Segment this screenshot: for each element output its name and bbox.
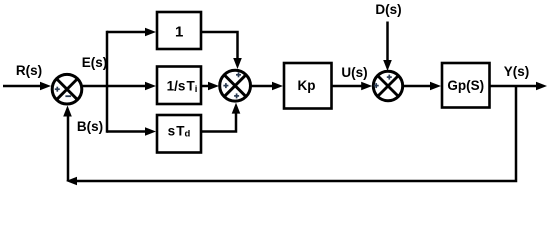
svg-text:Y(s): Y(s) (504, 64, 530, 79)
block Kp (controller gain) (284, 63, 332, 109)
S2 plus left (223, 83, 228, 88)
block 1 (proportional path) (157, 12, 201, 49)
wire S2 to Kp (250, 85, 276, 88)
svg-text:1: 1 (175, 24, 183, 41)
wire sTd output to S2 bottom (201, 111, 236, 132)
block sTd (derivative path) (157, 115, 201, 153)
block Gp(S) (plant) (442, 63, 490, 108)
arrowhead into Kp (272, 82, 283, 91)
svg-text:R(s): R(s) (16, 63, 42, 78)
arrowhead into S2 left (208, 82, 219, 91)
S1 minus sign (65, 95, 71, 97)
svg-text:E(s): E(s) (82, 55, 108, 70)
svg-text:B(s): B(s) (77, 119, 103, 134)
arrowhead into block 1/sTi (145, 82, 156, 91)
S2 plus bottom (234, 93, 239, 98)
arrowhead into Gp (430, 82, 441, 91)
wire R(s) input (3, 85, 44, 88)
wire D(s) disturbance down into S3 (386, 22, 389, 64)
arrowhead output Y(s) (536, 82, 547, 91)
svg-text:Gp(S): Gp(S) (447, 78, 484, 93)
summing junction S3 (373, 71, 402, 100)
svg-text:U(s): U(s) (341, 65, 367, 80)
arrowhead into S3 left (361, 82, 372, 91)
wire S3 to Gp (403, 85, 434, 88)
S3 plus left (374, 83, 379, 88)
wire E(s) from S1 to integral block (82, 85, 149, 88)
svg-text:Kp: Kp (298, 78, 316, 93)
S1 plus sign (55, 87, 60, 92)
arrowhead feedback into S1 bottom (63, 106, 72, 117)
S2 plus top (236, 72, 241, 77)
wire Y(s) output (489, 85, 540, 88)
wire U(s) from Kp to S3 (332, 85, 365, 88)
svg-text:1/s Ti: 1/s Ti (167, 79, 198, 96)
wire feedback: down from output node, across bottom (76, 86, 516, 181)
wire branch to block sTd (107, 130, 149, 133)
S3 cross X (378, 76, 399, 97)
arrowhead into block 1 (145, 28, 156, 37)
S3 plus top (387, 75, 392, 80)
wire 1/sTi output to S2 left (201, 85, 212, 88)
wire block1 output to S2 top (201, 32, 238, 61)
arrowhead into S3 top (383, 60, 392, 71)
svg-text:D(s): D(s) (375, 2, 401, 17)
arrowhead into S2 top (233, 58, 242, 69)
S2 cross X (224, 75, 246, 97)
node branch vertical at x=107 (106, 31, 109, 133)
summing junction S2 (220, 70, 251, 101)
S1 cross X (56, 79, 77, 100)
wire branch to block 1 (proportional) (107, 31, 149, 34)
summing junction S1 (52, 74, 82, 104)
arrowhead feedback left corner (66, 177, 77, 186)
arrowhead into S2 bottom (232, 103, 241, 114)
wire feedback: up to S1 (67, 113, 70, 181)
arrowhead into summing junction S1 (40, 82, 51, 91)
arrowhead into block sTd (145, 127, 156, 136)
block 1/sTi (integral path) (157, 67, 201, 105)
